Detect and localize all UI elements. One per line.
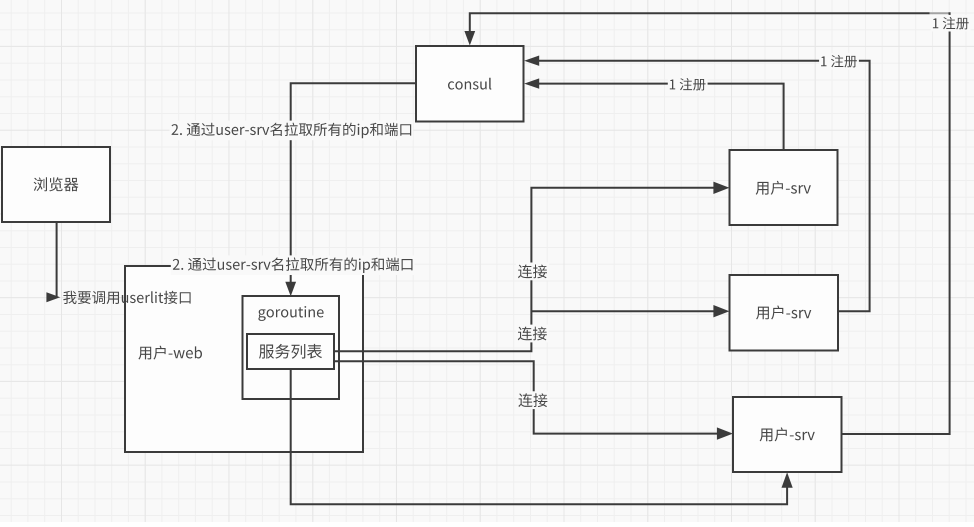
label 用户-srv box2 [756, 306, 811, 320]
arrowhead into goroutine top [285, 282, 296, 297]
arrowhead into consul right y84 [524, 78, 539, 88]
label consul [448, 78, 491, 90]
box user-srv 1 [730, 150, 838, 225]
wire register 3: srv1 top to consul right lower [539, 84, 784, 150]
wire register 2: srv2 right edge to consul right upper [539, 61, 870, 312]
label 用户-srv box1 [756, 181, 811, 195]
wire fetch: consul left to goroutine top [291, 83, 416, 282]
label 1 注册 lower [668, 76, 708, 93]
wire register 1: srv3 right edge to top edge to consul top [470, 13, 950, 434]
label 1 注册 top-right [931, 15, 971, 32]
box user-web outer 用户-web [125, 266, 363, 452]
arrowhead into consul top [464, 31, 475, 46]
arrowhead into consul right y61 [524, 56, 539, 66]
label 连接 3 [516, 391, 549, 409]
box user-srv 2 [730, 275, 839, 351]
arrowhead into srv3 left [717, 427, 733, 439]
faded segment under top-right label [930, 12, 949, 15]
wire connect 3: service-list to srv3 [334, 361, 718, 433]
box user-srv 3 [733, 397, 842, 472]
box goroutine [243, 296, 340, 399]
label 用户-srv box3 [760, 427, 815, 441]
label 连接 2 [516, 325, 549, 343]
arrowhead browser elbow right [46, 292, 60, 302]
label 我要调用userlit接口 [63, 291, 190, 304]
arrowhead into srv2 left [713, 305, 729, 317]
wire connect 4: service-list bottom to srv3 bottom [291, 369, 787, 504]
wire browser down arrow [56, 222, 58, 297]
label goroutine [258, 306, 323, 321]
box service-list 服务列表 [247, 334, 334, 369]
label 用户-web [138, 346, 202, 360]
wire connect 2: junction branch to srv2 [531, 310, 714, 312]
label 浏览器 [34, 177, 79, 191]
label 1 注册 mid [819, 53, 859, 70]
arrowhead into srv3 bottom [782, 472, 793, 488]
arrowhead into srv1 left [713, 182, 729, 194]
label step2 upper [170, 121, 414, 141]
label 连接 1 [516, 263, 549, 281]
box browser 浏览器 [2, 147, 110, 222]
label step2 lower [171, 255, 415, 275]
label 服务列表 [259, 344, 322, 359]
wire connect 1: service-list to srv1 [334, 188, 714, 351]
box consul [416, 46, 524, 122]
